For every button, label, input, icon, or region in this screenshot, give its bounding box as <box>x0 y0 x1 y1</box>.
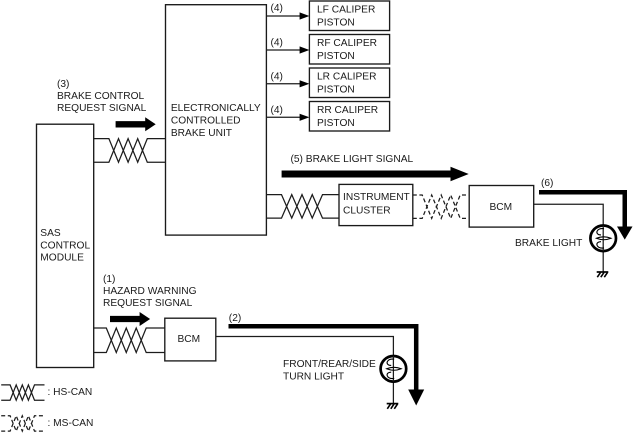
svg-text:REQUEST SIGNAL: REQUEST SIGNAL <box>57 103 147 114</box>
svg-text:BRAKE LIGHT: BRAKE LIGHT <box>515 238 582 249</box>
svg-text:RR CALIPER: RR CALIPER <box>317 105 378 116</box>
svg-text:(4): (4) <box>271 105 283 116</box>
svg-text:: HS-CAN: : HS-CAN <box>48 387 93 398</box>
svg-text:LF CALIPER: LF CALIPER <box>317 5 375 16</box>
svg-text:BRAKE CONTROL: BRAKE CONTROL <box>57 91 145 102</box>
svg-text:LR CALIPER: LR CALIPER <box>317 72 376 83</box>
svg-text:(4): (4) <box>271 72 283 83</box>
svg-text:CLUSTER: CLUSTER <box>343 205 391 216</box>
svg-text:RF CALIPER: RF CALIPER <box>317 38 377 49</box>
svg-text:PISTON: PISTON <box>317 18 355 29</box>
svg-text:(3): (3) <box>57 79 69 90</box>
svg-text:ELECTRONICALLY: ELECTRONICALLY <box>171 103 261 114</box>
svg-text:(1): (1) <box>103 274 115 285</box>
svg-text:(2): (2) <box>229 313 241 324</box>
svg-text:(4): (4) <box>271 38 283 49</box>
svg-text:SAS: SAS <box>40 228 61 239</box>
svg-text:BCM: BCM <box>490 202 513 213</box>
svg-text:PISTON: PISTON <box>317 85 355 96</box>
svg-text:(5) BRAKE LIGHT SIGNAL: (5) BRAKE LIGHT SIGNAL <box>291 154 414 165</box>
svg-text:CONTROL: CONTROL <box>40 240 90 251</box>
svg-text:INSTRUMENT: INSTRUMENT <box>343 192 410 203</box>
svg-text:REQUEST SIGNAL: REQUEST SIGNAL <box>103 298 193 309</box>
svg-text:PISTON: PISTON <box>317 118 355 129</box>
svg-text:BCM: BCM <box>178 334 201 345</box>
svg-text:HAZARD WARNING: HAZARD WARNING <box>103 286 197 297</box>
svg-text:BRAKE UNIT: BRAKE UNIT <box>171 128 232 139</box>
svg-text:PISTON: PISTON <box>317 51 355 62</box>
svg-text:TURN LIGHT: TURN LIGHT <box>283 372 344 383</box>
svg-text:FRONT/REAR/SIDE: FRONT/REAR/SIDE <box>283 359 376 370</box>
svg-text:(4): (4) <box>271 3 283 14</box>
svg-text:MODULE: MODULE <box>40 253 84 264</box>
svg-text:CONTROLLED: CONTROLLED <box>171 115 241 126</box>
svg-text:(6): (6) <box>541 178 553 189</box>
svg-text:: MS-CAN: : MS-CAN <box>48 418 94 429</box>
